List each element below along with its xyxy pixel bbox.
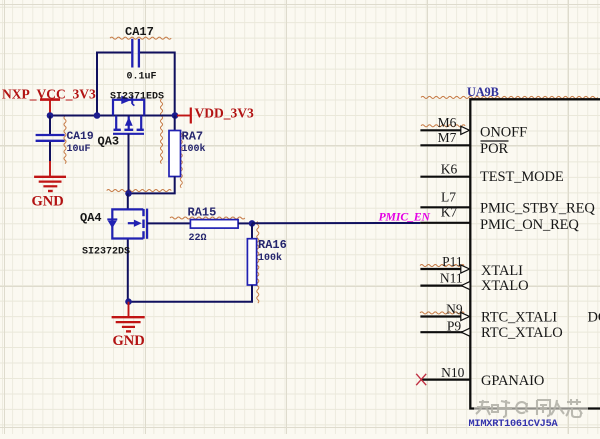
wire CA17 left branch (97, 53, 131, 116)
svg-text:UA9B: UA9B (467, 85, 499, 99)
pin name TEST_MODE (480, 169, 564, 185)
wire node A to CA19/QA3 (50, 115, 97, 117)
capacitor CA17 (125, 25, 157, 83)
svg-text:QA3: QA3 (98, 134, 120, 148)
svg-text:CA17: CA17 (125, 25, 154, 39)
pin N11 XTALO (420, 270, 470, 289)
transistor QA4 SI2372DS body-diode loop (107, 209, 143, 238)
pin name RTC_XTALI (481, 309, 557, 325)
resistor RA15 22R (188, 206, 239, 244)
svg-text:DC: DC (588, 309, 600, 325)
power port VDD_3V3 (177, 106, 254, 124)
svg-text:VDD_3V3: VDD_3V3 (195, 106, 254, 121)
svg-text:MIMXRT1061CVJ5A: MIMXRT1061CVJ5A (469, 418, 559, 430)
svg-text:XTALI: XTALI (481, 263, 523, 279)
svg-text:N11: N11 (440, 270, 463, 285)
svg-text:K6: K6 (441, 162, 458, 177)
svg-text:PMIC_EN: PMIC_EN (379, 210, 431, 224)
compile-mask squiggle under CA17 label (110, 37, 171, 39)
svg-text:GPANAIO: GPANAIO (481, 373, 544, 389)
compile-mask squiggle above pin P11 wire (420, 265, 464, 267)
svg-text:RA16: RA16 (258, 238, 287, 252)
label UA9B (467, 85, 499, 99)
svg-text:M7: M7 (438, 130, 457, 145)
compile-mask squiggle above pin N9 wire (420, 312, 464, 314)
wire node E to pin K7 (252, 222, 420, 224)
power port NXP_VCC_3V3 (2, 86, 96, 115)
label SI2371EDS (110, 92, 164, 103)
junction node F (QA4 source / GND) (125, 298, 132, 305)
pin name PMIC_STBY_REQ (480, 201, 595, 217)
label MIMXRT1061CVJ5A (469, 418, 559, 430)
junction node A (47, 112, 54, 119)
junction node E (PMIC_EN) (249, 220, 256, 227)
pin name RTC_XTALO (481, 325, 563, 341)
svg-text:K7: K7 (441, 204, 458, 219)
capacitor CA19 lead bottom (49, 142, 51, 161)
svg-text:P11: P11 (442, 254, 463, 269)
svg-text:PMIC_ON_REQ: PMIC_ON_REQ (480, 217, 579, 233)
net label PMIC_EN (379, 210, 431, 224)
pin P11 XTALI (420, 254, 469, 273)
svg-text:0.1uF: 0.1uF (127, 72, 157, 83)
svg-text:SI2371EDS: SI2371EDS (110, 92, 164, 103)
junction node D (QA3 gate / QA4 drain) (125, 190, 132, 197)
ground GND (middle) (112, 302, 145, 349)
label SI2372DS (82, 246, 130, 257)
svg-text:100k: 100k (182, 143, 206, 155)
resistor RA7 100k (169, 129, 206, 176)
compile-mask squiggle above pin M6 wire (421, 125, 465, 127)
compile-mask squiggle above QA3-RA7 wire (107, 190, 172, 192)
transistor QA3 channel/gate (113, 116, 144, 134)
svg-text:RTC_XTALI: RTC_XTALI (481, 309, 557, 325)
capacitor CA19 lead top (49, 116, 51, 135)
wire RA15 to node E (238, 222, 252, 224)
svg-text:QA4: QA4 (80, 211, 102, 225)
resistor RA16 100k (247, 238, 286, 285)
svg-text:P9: P9 (447, 319, 462, 334)
pin name XTALO (481, 278, 528, 294)
junction node C (QA3 drain / VDD_3V3) (172, 112, 179, 119)
svg-text:L7: L7 (441, 190, 456, 205)
svg-text:GND: GND (32, 193, 64, 209)
watermark (drawn strokes) (476, 399, 582, 417)
svg-text:RA7: RA7 (182, 129, 204, 143)
pin M7 POR (420, 130, 470, 145)
compile-mask squiggle right of CA19 (64, 116, 66, 164)
wire CA17 right branch (140, 53, 175, 116)
ground GND (left) (32, 161, 67, 209)
svg-text:ONOFF: ONOFF (480, 125, 527, 141)
no-ERC marker on N10 (416, 374, 426, 385)
compile-mask squiggle left of RA7 (160, 99, 162, 164)
svg-text:POR: POR (480, 141, 509, 157)
wire QA3 gate lead (128, 134, 130, 194)
pin name POR (active low) (480, 141, 509, 157)
pin M6 ONOFF (420, 115, 469, 134)
op IC UA9B MIMXRT1061CVJ5A outline (470, 99, 600, 408)
svg-text:M6: M6 (438, 115, 457, 130)
svg-text:22Ω: 22Ω (189, 233, 207, 244)
compile-mask squiggle under IC top edge (421, 96, 598, 98)
pin name GPANAIO (481, 373, 544, 389)
svg-text:PMIC_STBY_REQ: PMIC_STBY_REQ (480, 201, 595, 217)
pin K7 PMIC_ON_REQ (420, 204, 470, 222)
svg-text:NXP_VCC_3V3: NXP_VCC_3V3 (2, 86, 96, 101)
svg-text:RTC_XTALO: RTC_XTALO (481, 325, 563, 341)
pin L7 PMIC_STBY_REQ (420, 190, 470, 208)
watermark wash over IC edge (474, 405, 588, 414)
compile-mask squiggle right edge of RA7 (180, 130, 182, 188)
svg-text:GND: GND (113, 333, 145, 349)
wire node C to RA7 (174, 116, 176, 131)
wire node E to RA16 (251, 223, 253, 238)
pin K6 TEST_MODE (420, 162, 470, 177)
wire RA7 to gate node (129, 177, 175, 194)
svg-text:100k: 100k (258, 252, 282, 264)
compile-mask squiggle above RA15 (170, 217, 245, 219)
svg-text:XTALO: XTALO (481, 278, 528, 294)
label QA4 (80, 211, 102, 225)
wire main rail node A to node B (97, 115, 175, 117)
pin P9 RTC_XTALO (420, 319, 470, 337)
capacitor CA19 (36, 131, 94, 155)
label QA3 (98, 134, 120, 148)
wire QA4 drain-source through line (127, 193, 129, 301)
svg-text:TEST_MODE: TEST_MODE (480, 169, 564, 185)
pin N9 RTC_XTALI (420, 301, 469, 320)
svg-text:SI2372DS: SI2372DS (82, 246, 130, 257)
transistor QA3 SI2371EDS body-diode loop (113, 96, 144, 116)
svg-text:CA19: CA19 (67, 131, 94, 143)
svg-text:RA15: RA15 (188, 206, 217, 220)
pin name PMIC_ON_REQ (480, 217, 579, 233)
svg-text:N9: N9 (446, 301, 463, 316)
truncated net label DC... at sheet edge (588, 309, 600, 325)
transistor QA4 channel/gate (128, 209, 147, 239)
junction node B (QA3 source) (94, 112, 101, 119)
wire QA4 gate to RA15 (147, 222, 190, 224)
pin name ONOFF (480, 125, 527, 141)
compile-mask squiggle right of RA16 (257, 222, 259, 304)
pin name XTALI (481, 263, 523, 279)
svg-text:10uF: 10uF (67, 144, 91, 155)
pin N10 GPANAIO (420, 365, 470, 380)
svg-text:N10: N10 (441, 365, 464, 380)
wire RA16 bottom to ground rail (129, 285, 253, 302)
